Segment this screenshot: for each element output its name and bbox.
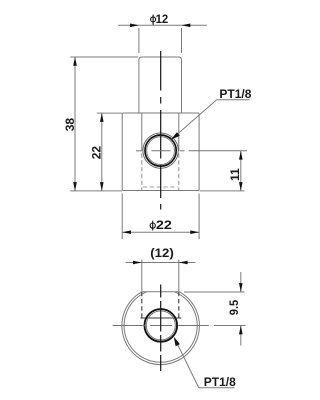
dimension 38: bottom arrow <box>73 182 77 191</box>
hidden counterbore bottom (dashed horizontal) <box>143 186 178 188</box>
dimension phi12: phi symbol <box>151 15 156 25</box>
svg-text:9.5: 9.5 <box>227 300 241 316</box>
dimension 38: dimension line <box>74 57 76 191</box>
leader PT1/8 front: slanted line <box>172 100 217 139</box>
svg-text:22: 22 <box>156 218 172 232</box>
stem (phi12 neck) outline <box>139 57 182 113</box>
vertical centerline front view <box>160 51 162 210</box>
dimension phi22: left arrow <box>122 230 131 234</box>
dimension 11: top arrow <box>239 151 243 160</box>
port circle inner thin (bottom view) <box>146 311 175 340</box>
dimension 9.5: top arrow (pointing down) <box>239 283 243 292</box>
svg-text:(12): (12) <box>150 246 174 260</box>
svg-text:PT1/8: PT1/8 <box>219 87 251 101</box>
dimension 38: bottom extension <box>70 190 122 192</box>
dimension phi22: right arrow <box>190 230 199 234</box>
leader PT1/8 bottom: underline <box>199 387 235 389</box>
horizontal centerline bottom view <box>113 325 209 327</box>
hidden stem line right (dashed) <box>178 292 180 318</box>
leader PT1/8 bottom: arrowhead <box>174 337 180 346</box>
svg-text:11: 11 <box>228 168 242 181</box>
dimension (12): extension right <box>178 260 180 292</box>
dimension phi22: extension right <box>198 194 200 240</box>
side port circle outer thin <box>143 133 178 168</box>
dimension 22: dimension line <box>101 113 103 191</box>
dimension (12): extension left <box>141 260 143 292</box>
big circle inner arc <box>124 292 197 362</box>
dimension phi12: left arrow <box>130 24 139 28</box>
leader PT1/8 front: arrowhead <box>171 132 180 139</box>
dimension 11: bottom extension right <box>200 190 245 192</box>
dimension 9.5: dimension line lower <box>240 326 242 346</box>
side port circle inner thin <box>147 137 175 165</box>
dimension 11: dimension line <box>240 151 242 191</box>
dimension phi12: right arrow <box>182 24 191 28</box>
dimension 9.5: bottom arrow (pointing up) <box>239 326 243 335</box>
dimension (12): right arrow <box>179 261 188 265</box>
hidden bore line left (dashed lower) <box>141 154 143 191</box>
interior bore line left (solid upper) <box>141 113 143 151</box>
leader PT1/8 bottom: slanted line <box>175 339 199 388</box>
svg-text:12: 12 <box>156 12 169 26</box>
port circle thick (bottom view) <box>145 309 178 342</box>
dimension 9.5: dimension line upper <box>240 272 242 292</box>
dimension phi12: extension line left <box>138 28 140 53</box>
dimension (12): left arrow <box>133 261 142 265</box>
svg-text:38: 38 <box>63 118 77 132</box>
flat top line <box>142 291 180 293</box>
dimension phi22: phi symbol <box>150 221 155 231</box>
horizontal port centerline front view <box>136 150 247 152</box>
dimension (12): dimension line <box>126 262 196 264</box>
svg-text:PT1/8: PT1/8 <box>204 375 236 389</box>
dimension 22: top arrow <box>100 113 104 122</box>
dimension phi12: dimension line <box>118 24 207 26</box>
leader PT1/8 front: underline <box>217 99 250 101</box>
dimension 11: bottom arrow <box>239 182 243 191</box>
hidden bore line right (dashed lower) <box>178 154 180 191</box>
chord line across port <box>140 317 181 319</box>
dimension 9.5: top extension <box>184 291 245 293</box>
dimension 9.5: bottom extension <box>214 325 246 327</box>
big circle outer arc (flat-topped) <box>122 292 200 365</box>
body (phi22) outline <box>122 113 199 191</box>
dimension phi22: dimension line <box>122 231 199 233</box>
dimension phi22: extension left <box>121 194 123 240</box>
dimension 22: bottom arrow <box>100 182 104 191</box>
dimension 38: top arrow <box>73 57 77 66</box>
dimension phi12: extension line right <box>181 28 183 53</box>
side port circle thick (thread) <box>145 135 176 166</box>
hidden stem line left (dashed) <box>141 292 143 318</box>
vertical centerline bottom view <box>160 285 162 372</box>
interior bore line right (solid upper) <box>178 113 180 151</box>
dimension 38: top extension <box>70 56 138 58</box>
dimension 22: top extension <box>97 112 122 114</box>
svg-text:22: 22 <box>90 146 104 160</box>
